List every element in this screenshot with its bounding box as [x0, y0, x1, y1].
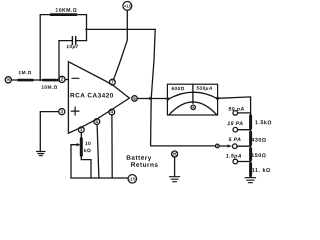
svg-text:4: 4 [110, 109, 113, 114]
svg-text:6: 6 [133, 96, 136, 101]
svg-text:RCA CA3420: RCA CA3420 [70, 92, 114, 99]
svg-text:10M.Ω: 10M.Ω [41, 85, 57, 91]
svg-text:1.5pA: 1.5pA [226, 153, 242, 159]
svg-text:15 PA: 15 PA [227, 121, 243, 127]
svg-text:2: 2 [61, 77, 64, 82]
svg-text:5: 5 [95, 119, 98, 124]
svg-text:7: 7 [111, 80, 114, 85]
svg-text:-1.5: -1.5 [129, 176, 136, 181]
svg-text:430Ω: 430Ω [251, 138, 266, 144]
svg-text:IN: IN [7, 78, 11, 82]
svg-text:11. kΩ: 11. kΩ [252, 168, 271, 174]
svg-text:1.5kΩ: 1.5kΩ [255, 120, 272, 126]
svg-text:Returns: Returns [131, 162, 159, 169]
svg-text:+1.5: +1.5 [124, 3, 132, 8]
svg-text:1: 1 [80, 127, 83, 132]
svg-text:3: 3 [60, 109, 63, 114]
svg-text:5 PA: 5 PA [228, 137, 241, 143]
svg-text:10: 10 [85, 141, 91, 147]
svg-text:10KM.Ω: 10KM.Ω [55, 8, 77, 14]
svg-text:500μA: 500μA [196, 86, 213, 92]
svg-text:150Ω: 150Ω [251, 153, 266, 159]
svg-text:50 pA: 50 pA [228, 107, 244, 113]
svg-text:600Ω: 600Ω [171, 86, 184, 92]
svg-text:1M.Ω: 1M.Ω [18, 70, 31, 76]
svg-text:kΩ: kΩ [84, 148, 91, 154]
svg-text:10pf: 10pf [66, 44, 79, 50]
svg-text:Battery: Battery [126, 155, 152, 162]
